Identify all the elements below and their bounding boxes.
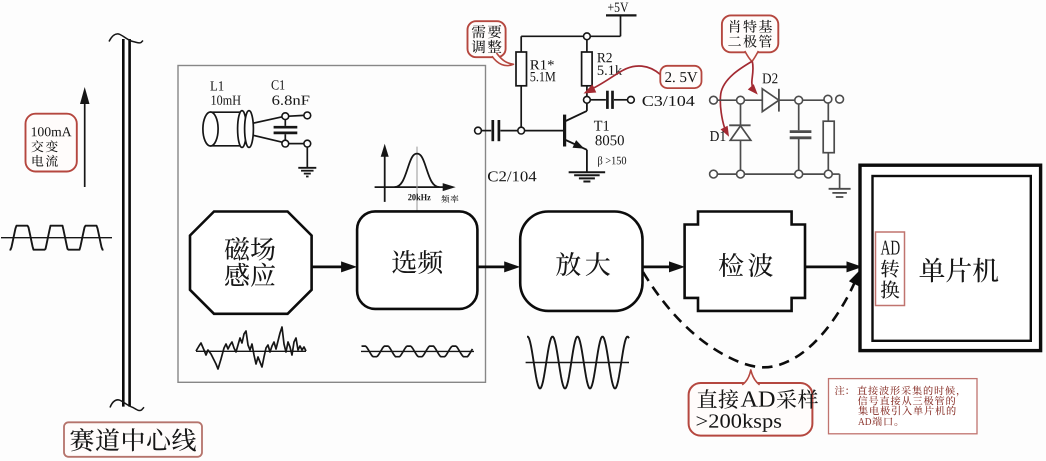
capacitor C2 bbox=[493, 120, 518, 141]
wire -- arrow 选频 to 放大 bbox=[477, 261, 520, 272]
label -- callout 肖特基二极管 (Schottky diodes) bbox=[722, 15, 778, 61]
label -- R2 5.1k bbox=[597, 53, 622, 75]
node -- open terminal top bbox=[304, 112, 311, 119]
label -- track centerline box 赛道中心线 bbox=[64, 422, 202, 457]
node -- D2 output node bbox=[795, 96, 803, 104]
node -- C3 output terminal bbox=[628, 96, 635, 103]
label -- 100mA alternating current callout box bbox=[26, 114, 77, 172]
transistor T1 8050 NPN bbox=[565, 103, 587, 171]
node -- band-pass curve peaking at 20kHz bbox=[395, 154, 440, 188]
node -- supply junction bbox=[584, 33, 591, 40]
ground -- L1/C1 ground bbox=[298, 168, 316, 177]
label -- C1 6.8nF bbox=[271, 80, 309, 105]
wire -- +5V rail to resistors bbox=[521, 36, 620, 52]
node -- L1/C1 bottom junction bbox=[282, 140, 289, 147]
wire -- resistor bottom wire bbox=[827, 153, 829, 171]
label -- R1* 5.1M bbox=[530, 60, 555, 81]
label -- callout 需要调整 (needs adjustment) bbox=[468, 21, 514, 65]
wire -- R1 to base node bbox=[520, 86, 522, 127]
wire -- to detector ground bbox=[832, 174, 839, 188]
wire -- resistor top wire bbox=[827, 103, 829, 121]
wire -- arrow 放大 to 检波 bbox=[643, 261, 686, 272]
capacitor -- detector filter cap bbox=[790, 132, 812, 171]
capacitor C3 bbox=[607, 91, 627, 109]
label -- 20kHz frequency axis labels bbox=[408, 194, 458, 203]
node -- output terminal pair bbox=[824, 95, 843, 103]
node -- block 磁场感应 (magnetic field sensing octagon) bbox=[190, 212, 312, 314]
node -- D1/D2 junction bbox=[737, 96, 745, 104]
node -- block 选频 (band select rounded box) bbox=[357, 211, 477, 309]
label -- note box 注: direct waveform sampling bbox=[829, 379, 978, 434]
wire -- arrow 检波 to MCU bbox=[805, 261, 863, 272]
wire -- detector bottom rail bbox=[717, 173, 824, 175]
node -- MCU inner box bbox=[873, 176, 1031, 341]
node -- MCU outer box bbox=[860, 165, 1041, 350]
wire -- D1 anode wire bbox=[740, 104, 742, 125]
wire -- dashed direct-sampling curve from 放大 to MCU bbox=[643, 269, 862, 368]
label -- D1 designator bbox=[710, 131, 725, 141]
resistor -- detector load resistor bbox=[823, 121, 834, 153]
ground -- detector ground bbox=[829, 189, 851, 197]
node -- bottom rail junction under resistor bbox=[824, 170, 832, 178]
wire -- base node to transistor bbox=[525, 130, 565, 132]
label -- AD conversion box AD转换 bbox=[876, 232, 905, 306]
label -- C2/104 bbox=[488, 171, 536, 181]
wire -- junction down to R2 bbox=[586, 40, 588, 52]
wire -- red pointer to D2 bbox=[748, 61, 758, 94]
inductor L1 bbox=[203, 111, 254, 148]
wire -- 100mA current waveform baseline bbox=[1, 226, 112, 250]
node -- input terminal bbox=[475, 127, 482, 134]
wire -- filter cap top wire bbox=[798, 104, 800, 130]
label -- callout 直接AD采样 >200ksps bbox=[689, 370, 818, 436]
wire -- noisy waveform under 磁场感应 bbox=[196, 327, 306, 369]
resistor R1 bbox=[516, 52, 527, 86]
node -- track center line (double vertical line with break squiggles) bbox=[109, 34, 144, 411]
wire -- collector to C3 bbox=[590, 99, 606, 101]
node -- open terminal bottom bbox=[304, 140, 311, 147]
wire -- inductor leads to C1 bbox=[253, 117, 282, 142]
label -- T1 8050 beta bbox=[594, 121, 626, 167]
node -- bottom rail junction under D1 bbox=[737, 170, 745, 178]
wire -- upward current direction arrow bbox=[80, 87, 90, 187]
wire -- to ground bbox=[306, 147, 308, 167]
wire -- filtered ripple waveform under 选频 bbox=[361, 346, 474, 357]
node -- base node bbox=[518, 127, 525, 134]
node -- sensor front-end region outline bbox=[178, 66, 486, 383]
power +5V bbox=[606, 3, 637, 37]
node -- collector node bbox=[584, 96, 591, 103]
wire -- R2 to collector bbox=[586, 86, 588, 97]
ground -- emitter ground bbox=[569, 172, 606, 181]
label -- D2 designator bbox=[762, 73, 777, 83]
label -- callout 2.5V with pointer to collector bbox=[584, 66, 702, 94]
wire -- C1 to terminals bbox=[289, 115, 304, 143]
wire -- arrow 磁场感应 to 选频 bbox=[312, 261, 358, 272]
node -- detector input terminal top bbox=[710, 96, 718, 104]
diode D2 (series Schottky) bbox=[762, 89, 779, 112]
wire -- amplified sine waveform under 放大 bbox=[526, 337, 629, 389]
capacitor C1 bbox=[274, 120, 298, 141]
node -- block 放大 (amplifier rounded box) bbox=[520, 212, 642, 311]
resistor R2 bbox=[582, 52, 593, 86]
diode D1 (shunt Schottky) bbox=[729, 125, 751, 170]
node -- bottom rail junction under cap bbox=[795, 170, 803, 178]
label -- C3/104 bbox=[643, 96, 695, 106]
node -- frequency response axes bbox=[375, 144, 456, 211]
node -- L1/C1 top junction bbox=[282, 113, 289, 120]
wire -- input to C2 bbox=[481, 130, 491, 132]
wire -- detector top rail bbox=[717, 99, 824, 101]
wire -- red pointer to D1 bbox=[720, 61, 752, 136]
label -- L1 10mH bbox=[210, 81, 240, 105]
node -- block 检波 (detector cross-shaped box) bbox=[685, 212, 805, 311]
node -- detector bottom-left terminal bbox=[710, 170, 718, 178]
label -- 单片机 (MCU) bbox=[920, 258, 999, 283]
